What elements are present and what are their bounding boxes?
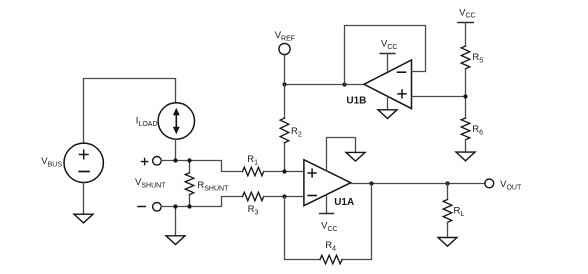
VCC bar (U1A) — [320, 213, 334, 215]
wire U1B plus input to divider — [412, 96, 466, 98]
plus sign at terminal — [142, 159, 148, 165]
wire R6 to ground — [465, 140, 467, 152]
terminal VREF — [279, 43, 290, 54]
ILOAD arrow — [175, 113, 177, 129]
node U1B output feedback junction — [342, 82, 346, 86]
wire RL to ground — [447, 222, 449, 237]
wire RSHUNT stubs — [189, 161, 191, 207]
wire minus node to ground — [175, 207, 177, 236]
node R1 R2 plus-input junction — [282, 169, 286, 173]
minus sign at terminal — [138, 206, 145, 208]
wire U1B feedback loop — [345, 26, 426, 85]
ground (U1B) — [378, 110, 397, 119]
wire VCC bar to U1B — [387, 54, 389, 71]
svg-text:VCC: VCC — [381, 39, 397, 51]
ground (R6) — [456, 152, 475, 161]
node output RL junction — [445, 181, 449, 185]
terminal VOUT — [485, 179, 494, 188]
wire VREF down to node — [284, 55, 286, 85]
wire VREF node to U1B output — [285, 84, 365, 86]
svg-text:VBUS: VBUS — [41, 156, 62, 168]
wire R2 stubs — [284, 85, 286, 172]
wire R5 to node — [465, 69, 467, 118]
svg-text:U1B: U1B — [346, 95, 366, 106]
ground (shunt) — [166, 236, 185, 245]
svg-text:VOUT: VOUT — [500, 179, 522, 191]
node divider junction — [463, 94, 467, 98]
resistor R3 — [243, 192, 264, 201]
node R3 R4 minus-input junction — [282, 194, 286, 198]
resistor R6 — [461, 118, 470, 140]
svg-text:VCC: VCC — [459, 7, 475, 19]
svg-text:VCC: VCC — [321, 221, 337, 233]
ground (U1A top pin) — [346, 152, 365, 161]
svg-text:R4: R4 — [325, 240, 336, 252]
op-amp U1B — [364, 60, 412, 109]
svg-text:U1A: U1A — [334, 197, 354, 208]
svg-text:R2: R2 — [291, 126, 302, 138]
node output R4 junction — [369, 181, 373, 185]
node junction dots shunt rows — [173, 158, 177, 162]
wire U1B bottom pin to ground — [387, 96, 389, 110]
wire R4 feedback loop — [285, 184, 372, 260]
wire top rail from VBUS to ILOAD — [84, 79, 176, 144]
resistor RL — [443, 200, 452, 223]
svg-text:ILOAD: ILOAD — [136, 116, 158, 128]
svg-text:R5: R5 — [472, 52, 483, 64]
wire plus row — [161, 161, 242, 172]
svg-text:RSHUNT: RSHUNT — [197, 180, 229, 192]
resistor R4 — [320, 255, 342, 264]
voltage source VBUS — [64, 143, 103, 182]
svg-text:R6: R6 — [472, 124, 483, 136]
wire minus row — [161, 197, 242, 207]
U1A plus input sign — [308, 169, 316, 177]
svg-text:R3: R3 — [248, 204, 259, 216]
wire RL stub — [447, 184, 449, 200]
wire VBUS to ground — [83, 183, 85, 215]
terminal minus — [153, 203, 162, 212]
wire U1A bottom pin to VCC bar — [326, 195, 328, 214]
ground (VBUS) — [74, 214, 93, 223]
wire R3 to op-amp — [264, 196, 304, 198]
VCC bar (top right) — [458, 22, 473, 24]
svg-text:RL: RL — [454, 205, 465, 217]
svg-text:VREF: VREF — [275, 30, 295, 42]
resistor RSHUNT — [185, 173, 194, 195]
wire VCC to R5 — [465, 23, 467, 47]
wire U1A top pin to ground — [327, 138, 356, 172]
U1B plus input sign — [398, 90, 406, 98]
ground (RL) — [438, 238, 457, 247]
U1B minus input sign — [398, 71, 406, 73]
svg-text:VSHUNT: VSHUNT — [135, 177, 166, 189]
VBUS plus sign — [80, 150, 89, 158]
svg-text:R1: R1 — [247, 154, 258, 166]
U1A minus input sign — [308, 195, 316, 197]
VCC bar (U1B) — [380, 53, 395, 55]
resistor R2 — [280, 118, 289, 143]
wire R1 to op-amp — [264, 171, 304, 173]
resistor R5 — [461, 46, 470, 69]
VBUS minus sign — [79, 171, 89, 173]
op-amp U1A — [304, 160, 351, 206]
wire ILOAD to plus node — [175, 139, 177, 160]
wire U1A output line — [351, 183, 485, 185]
terminal plus — [153, 157, 162, 166]
resistor R1 — [243, 167, 264, 176]
node VREF junction — [282, 82, 286, 86]
current source ILOAD — [158, 103, 194, 139]
